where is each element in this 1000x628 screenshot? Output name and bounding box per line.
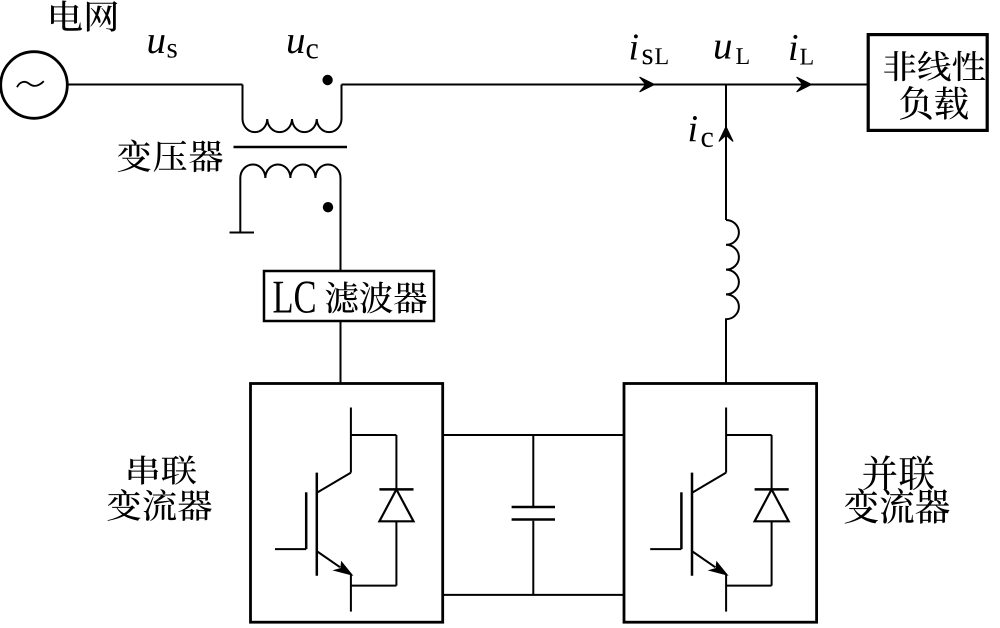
transformer secondary winding: [240, 164, 340, 271]
IGBT emitter diagonal (shunt): [693, 552, 716, 568]
IGBT emitter arrowhead (shunt): [710, 562, 727, 575]
label 并联 (shunt) line 1: [863, 455, 896, 490]
arrow i_c (pointing up): [719, 127, 733, 142]
wire: junction down to inductor: [725, 85, 727, 221]
DC link capacitor: [532, 435, 534, 506]
IGBT gate bar (shunt): [680, 492, 683, 549]
IGBT top branch to diode (shunt): [726, 434, 772, 436]
AC source sine tilde: [17, 81, 44, 87]
secondary left terminal T-bar: [230, 232, 255, 234]
DC bus bottom wire: [443, 594, 624, 596]
IGBT channel bar (shunt): [691, 473, 694, 576]
label 串联 (series) line 1: [129, 456, 159, 485]
label i_c: [690, 116, 697, 141]
wire: source to transformer primary: [67, 84, 243, 86]
transformer primary winding: [243, 85, 342, 133]
label u_L: [715, 41, 731, 59]
label text 滤波器 inside LC filter box: [326, 281, 358, 313]
IGBT bottom branch to diode (series): [351, 585, 397, 587]
IGBT collector stub (shunt): [725, 408, 727, 473]
wire: transformer to load (top line): [342, 84, 869, 86]
label i_L: [790, 35, 797, 60]
polarity dot secondary: [323, 202, 333, 212]
IGBT gate lead (shunt): [650, 548, 681, 550]
nonlinear load box: [868, 35, 987, 131]
IGBT emitter lead (series): [350, 575, 352, 612]
shunt converter box: [624, 384, 817, 623]
arrow i_sL on top wire: [640, 77, 655, 92]
IGBT collector stub (series): [350, 408, 352, 473]
label i_sL: [631, 34, 638, 59]
IGBT bottom branch to diode (shunt): [726, 585, 772, 587]
arrow i_L on top wire: [797, 77, 812, 92]
label 变流器 (converter) line 2 left: [108, 489, 141, 521]
IGBT collector diagonal (series): [317, 473, 351, 493]
IGBT emitter arrowhead (series): [335, 562, 352, 575]
freewheel diode (shunt): [771, 435, 773, 489]
LC filter label latin part: [273, 282, 291, 313]
IGBT top branch to diode (series): [351, 434, 397, 436]
LC filter box: [264, 271, 434, 321]
IGBT collector diagonal (shunt): [693, 473, 727, 493]
polarity dot primary: [322, 75, 332, 85]
IGBT channel bar (series): [316, 473, 319, 576]
label 变流器 (converter) line 2 right: [845, 488, 878, 523]
IGBT emitter diagonal (series): [317, 552, 340, 568]
freewheel diode (series): [395, 435, 397, 489]
IGBT gate bar (series): [305, 492, 308, 549]
AC source circle (电网): [1, 52, 68, 119]
DC bus top wire: [443, 434, 624, 436]
wire: LC filter to series converter box: [340, 321, 342, 384]
label 变压器 (transformer): [118, 139, 151, 172]
IGBT emitter lead (shunt): [725, 575, 727, 612]
label 电网 (power grid): [51, 0, 82, 30]
label 负载 (load) line 2 in load box: [900, 86, 932, 120]
label u_s: [148, 35, 164, 53]
transformer core line: [234, 146, 348, 149]
label u_c: [288, 35, 304, 53]
label 非线性 (nonlinear) line 1 in load box: [884, 51, 916, 81]
IGBT gate lead (series): [275, 548, 306, 550]
series converter box: [251, 384, 443, 623]
inductor L (i_c branch): [726, 220, 739, 384]
